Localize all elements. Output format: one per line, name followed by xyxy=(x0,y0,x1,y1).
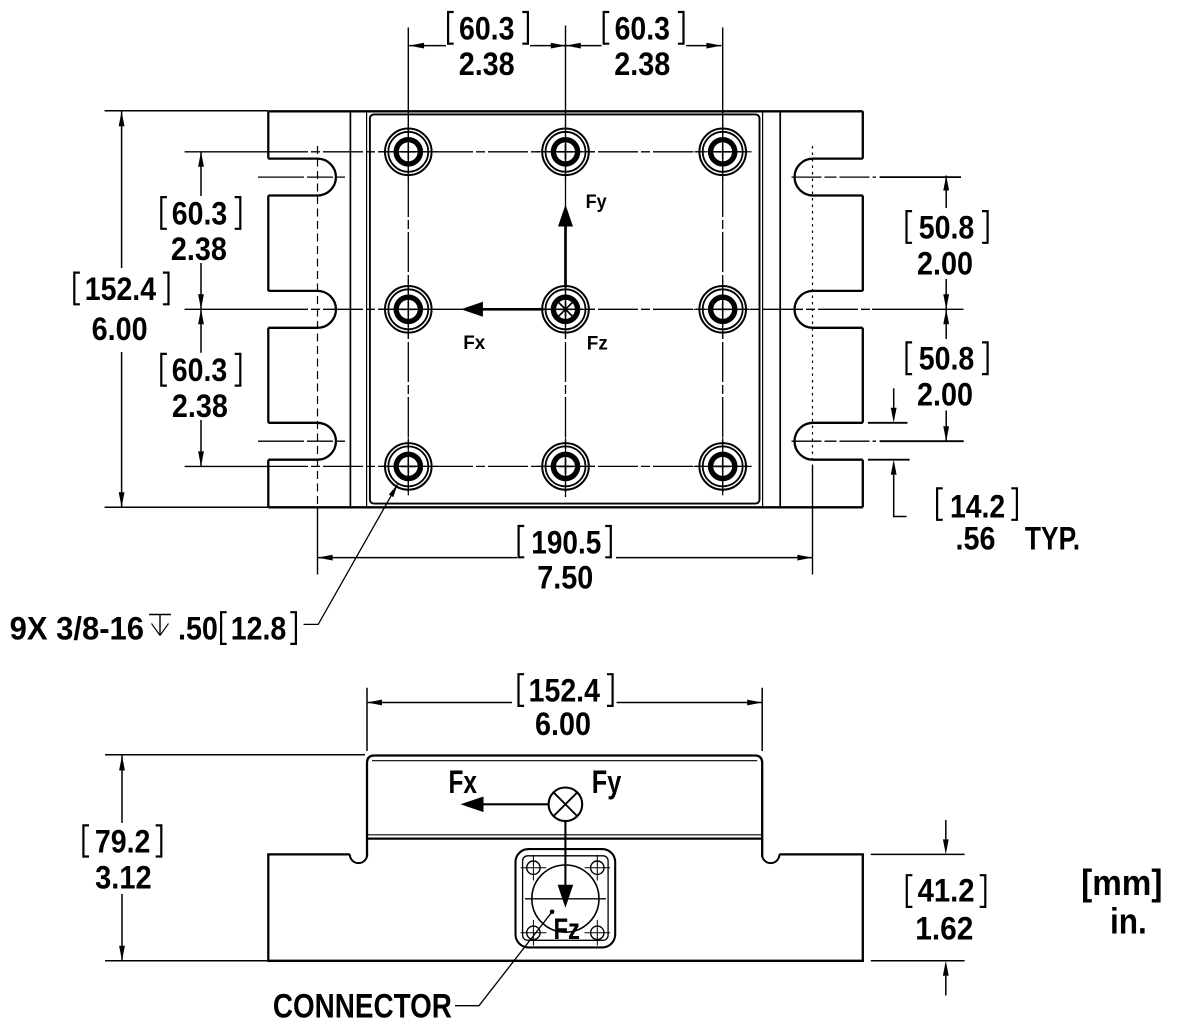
svg-text:Fx: Fx xyxy=(463,333,485,354)
svg-text:.50: .50 xyxy=(178,611,218,647)
svg-text:79.2: 79.2 xyxy=(95,824,151,860)
svg-text:2.00: 2.00 xyxy=(917,245,973,281)
svg-text:60.3: 60.3 xyxy=(459,10,514,46)
row centerline 1 xyxy=(185,151,268,153)
seam thick line xyxy=(367,837,762,839)
row centerline 2 xyxy=(185,308,964,310)
dim 190.5 bottom of top view xyxy=(318,557,813,559)
hole r2c2 center xyxy=(537,280,595,338)
axis labels bottom view xyxy=(448,764,621,800)
svg-text:12.8: 12.8 xyxy=(231,611,287,647)
bracket pair xyxy=(604,12,610,44)
svg-text:6.00: 6.00 xyxy=(92,311,148,347)
dim line top 60.3 pair xyxy=(409,45,721,47)
bracket pair xyxy=(907,342,913,374)
connector inner flange xyxy=(523,856,609,941)
bracket pair xyxy=(519,674,525,706)
bracket pair xyxy=(448,12,454,44)
svg-text:2.00: 2.00 xyxy=(917,377,973,413)
slot centerline right bottom + extension xyxy=(792,440,877,442)
bracket pair xyxy=(161,197,167,229)
hole r3c1 xyxy=(379,437,437,495)
svg-text:.56: .56 xyxy=(956,520,996,556)
right slot 1 xyxy=(795,159,863,196)
svg-text:2.38: 2.38 xyxy=(459,46,515,82)
bracket pair xyxy=(221,612,227,644)
Fx axis arrow bottom view xyxy=(481,803,549,805)
svg-text:CONNECTOR: CONNECTOR xyxy=(273,988,452,1026)
seam thin line xyxy=(367,834,762,836)
column centerline 2 xyxy=(565,26,567,123)
hole r1c1 xyxy=(379,123,437,181)
svg-text:2.38: 2.38 xyxy=(614,46,670,82)
bolt line left xyxy=(317,146,319,507)
step line left xyxy=(349,111,351,507)
dim 152.4 bottom view xyxy=(367,688,762,751)
left slot 2 xyxy=(268,291,336,328)
svg-text:14.2: 14.2 xyxy=(950,489,1005,525)
base outline xyxy=(268,854,863,960)
relief groove left xyxy=(350,854,367,863)
svg-text:2.38: 2.38 xyxy=(172,388,228,424)
hole r1c2 xyxy=(537,123,595,181)
plate thin outer verticals xyxy=(367,111,763,507)
svg-text:[mm]: [mm] xyxy=(1081,862,1162,903)
connector barrel circle xyxy=(532,865,599,932)
connector screw hole 2 xyxy=(585,855,611,881)
svg-text:Fx: Fx xyxy=(448,764,477,800)
step line right xyxy=(779,111,781,507)
svg-text:152.4: 152.4 xyxy=(529,673,600,709)
hole r3c2 xyxy=(537,437,595,495)
Fy axis arrow top view xyxy=(564,226,567,288)
svg-text:41.2: 41.2 xyxy=(918,872,975,908)
depth symbol in 9X note xyxy=(149,615,171,636)
svg-text:7.50: 7.50 xyxy=(537,560,593,596)
dim 41.2 right bottom view xyxy=(871,854,965,960)
slot centerline left top xyxy=(258,176,345,178)
bracket pair xyxy=(161,354,167,386)
body right edge segments between slots xyxy=(862,111,864,507)
bracket pair xyxy=(907,211,913,243)
hole r3c3 xyxy=(694,437,752,495)
svg-text:1.62: 1.62 xyxy=(915,910,973,946)
svg-text:3.12: 3.12 xyxy=(95,859,152,895)
svg-text:60.3: 60.3 xyxy=(172,195,227,231)
svg-text:Fy: Fy xyxy=(586,192,607,213)
dim 14.2 slot width xyxy=(868,423,910,460)
svg-text:TYP.: TYP. xyxy=(1025,520,1080,556)
plate chamfer line xyxy=(372,760,757,762)
body top edge xyxy=(268,110,863,112)
hole r2c1 xyxy=(379,280,437,338)
svg-text:Fz: Fz xyxy=(587,334,608,355)
connector key line xyxy=(525,898,606,900)
svg-text:6.00: 6.00 xyxy=(535,706,591,742)
svg-text:190.5: 190.5 xyxy=(531,525,601,561)
svg-text:Fz: Fz xyxy=(553,913,580,946)
right slot 3 xyxy=(795,423,863,460)
relief groove right xyxy=(762,854,779,863)
svg-text:Fy: Fy xyxy=(592,764,622,800)
column centerline 1 xyxy=(407,28,409,123)
body left edge segments between slots xyxy=(267,111,269,507)
connector screw hole 1 xyxy=(521,855,547,881)
svg-text:50.8: 50.8 xyxy=(919,341,975,377)
bracket pair xyxy=(937,488,943,520)
connector screw hole 3 xyxy=(521,920,547,946)
dim 50.8 right pair xyxy=(945,176,947,442)
bolt line right xyxy=(812,146,814,465)
slot centerline left bottom xyxy=(258,440,345,442)
body bottom edge xyxy=(268,506,863,508)
plate block outline xyxy=(367,756,762,857)
right slot 2 xyxy=(795,291,863,328)
bracket pair xyxy=(907,875,913,907)
connector outer body xyxy=(516,849,616,947)
bracket pair xyxy=(83,825,89,856)
center hole X mark xyxy=(559,303,572,316)
svg-text:50.8: 50.8 xyxy=(919,209,975,245)
leader 9X note xyxy=(304,485,398,625)
slot centerline right top + extension xyxy=(792,176,877,178)
svg-text:9X 3/8-16: 9X 3/8-16 xyxy=(10,611,144,647)
axis labels top view xyxy=(463,192,608,354)
hole r1c3 xyxy=(694,123,752,181)
left slot 1 xyxy=(268,159,336,196)
left slot 3 xyxy=(268,423,336,460)
Fx axis arrow top view xyxy=(483,308,544,311)
bracket pair xyxy=(74,273,80,305)
row centerline 3 xyxy=(185,465,268,467)
column centerline 3 xyxy=(722,28,724,123)
svg-text:152.4: 152.4 xyxy=(85,271,156,307)
connector screw hole 4 xyxy=(585,920,611,946)
leader CONNECTOR xyxy=(455,912,552,1006)
svg-text:60.3: 60.3 xyxy=(615,10,670,46)
dim 79.2 left bottom view xyxy=(105,755,365,961)
hole r2c3 xyxy=(694,280,752,338)
svg-text:2.38: 2.38 xyxy=(171,231,227,267)
Fy into-page symbol xyxy=(549,788,583,822)
bracket pair xyxy=(519,526,525,557)
svg-text:in.: in. xyxy=(1110,901,1147,942)
plate inner chamfer rect xyxy=(370,114,760,503)
dim 60.3 left pair xyxy=(200,152,202,467)
dim 152.4 left xyxy=(105,111,268,508)
Fz axis arrow bottom view xyxy=(564,821,566,887)
svg-text:60.3: 60.3 xyxy=(172,352,227,388)
